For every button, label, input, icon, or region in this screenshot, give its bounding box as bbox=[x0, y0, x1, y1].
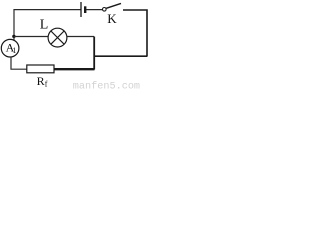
ammeter A1 circle bbox=[1, 39, 19, 57]
svg-text:K: K bbox=[107, 11, 117, 26]
battery cell long plate (+) bbox=[80, 2, 82, 17]
wire junction to lamp bbox=[14, 36, 49, 38]
battery cell short plate (-) bbox=[84, 6, 86, 13]
switch K lever bbox=[106, 3, 121, 8]
wire ammeter down to bottom bbox=[11, 57, 27, 69]
lamp cross bbox=[51, 31, 64, 44]
svg-text:R: R bbox=[37, 74, 45, 88]
svg-text:1: 1 bbox=[12, 46, 16, 55]
svg-text:f: f bbox=[45, 80, 48, 89]
switch K pivot circle bbox=[103, 8, 107, 12]
resistor Rf body bbox=[27, 65, 54, 73]
wire bottom-right horizontal to middle vertical bbox=[94, 55, 148, 57]
wire lamp to middle vertical bbox=[67, 36, 94, 38]
middle vertical wire bbox=[93, 37, 95, 70]
node junction dot at left branch bbox=[12, 35, 15, 38]
lamp L circle bbox=[48, 28, 67, 47]
wire junction down to ammeter bbox=[13, 37, 15, 41]
wire resistor to middle vertical bbox=[54, 68, 95, 70]
wire battery to switch bbox=[86, 9, 103, 11]
svg-text:L: L bbox=[40, 18, 49, 33]
wire top-left to battery bbox=[14, 10, 81, 37]
wire switch to top-right corner and down right side bbox=[123, 10, 147, 56]
svg-text:manfen5.com: manfen5.com bbox=[73, 81, 140, 92]
